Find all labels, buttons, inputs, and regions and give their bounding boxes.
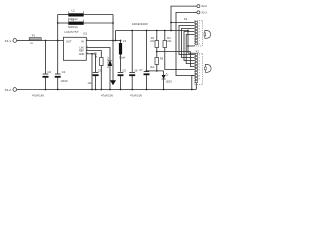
wire bead left vertical (57, 15, 59, 41)
svg-text:IC1: IC1 (83, 31, 88, 35)
ferrite bead L1 (68, 22, 83, 25)
wire bottom rail (17, 89, 197, 91)
wire R4 chain (164, 31, 166, 41)
svg-text:56uH: 56uH (119, 56, 125, 60)
svg-text:10k: 10k (150, 40, 155, 43)
wire C2 vertical (45, 41, 47, 74)
inductor L3 (119, 43, 122, 55)
wire X1-1 to fuse (17, 40, 30, 42)
svg-text:2: 2 (199, 58, 201, 60)
ferrite bead L2 (68, 13, 83, 16)
svg-text:GND: GND (79, 53, 85, 56)
wire bus1 K1 row2 to K2 row2 (179, 26, 195, 55)
wire rail riser (115, 31, 117, 41)
svg-text:47uF/16V: 47uF/16V (32, 94, 44, 98)
svg-text:IN: IN (81, 39, 84, 43)
wire L1 row (58, 22, 69, 24)
svg-text:1: 1 (199, 55, 201, 57)
wire fuse to IC (41, 40, 63, 42)
svg-text:4: 4 (199, 64, 201, 66)
fuse F1 (29, 38, 41, 41)
capacitor C3 (93, 71, 99, 73)
resistor R3 (155, 41, 159, 48)
svg-text:C7: C7 (139, 68, 143, 72)
svg-text:C2: C2 (48, 70, 52, 74)
wire IC REF pin (86, 51, 101, 58)
svg-text:47uF/10V: 47uF/10V (130, 94, 142, 98)
wire X2-2 net (171, 6, 197, 30)
svg-text:X1-2: X1-2 (5, 88, 12, 92)
capacitor C7 (144, 71, 150, 73)
svg-text:6: 6 (199, 70, 201, 72)
svg-text:2: 2 (199, 26, 201, 28)
wire bead right vertical down to ground rail (112, 15, 114, 81)
svg-text:OUT: OUT (66, 39, 72, 43)
resistor R1 (100, 58, 104, 66)
svg-text:X1-1: X1-1 (5, 39, 12, 43)
mini-DIN face icon K2 (205, 65, 211, 73)
svg-text:7: 7 (199, 73, 201, 75)
svg-text:L2: L2 (72, 9, 75, 13)
svg-text:C6: C6 (134, 69, 138, 73)
capacitor C2 electrolytic (43, 73, 49, 75)
svg-text:F1: F1 (32, 35, 36, 38)
connector X1-2 (13, 88, 17, 92)
svg-text:K1: K1 (184, 17, 188, 21)
svg-text:P6SMB: P6SMB (106, 57, 109, 69)
svg-text:6: 6 (199, 38, 201, 40)
wire X2-1 net (176, 12, 197, 75)
wire IC IN pin (86, 40, 120, 42)
LED1 (162, 75, 166, 79)
wire IC LIM pin (86, 48, 110, 61)
svg-text:8: 8 (199, 76, 201, 78)
resistor R5 (155, 58, 159, 65)
wire R3 to K2 bus (157, 52, 195, 67)
svg-text:C3: C3 (98, 69, 102, 73)
svg-text:L1: L1 (72, 18, 75, 22)
svg-text:1k: 1k (95, 56, 98, 59)
svg-text:2k2: 2k2 (150, 66, 155, 69)
wire R3 chain (156, 31, 158, 41)
svg-text:K2: K2 (196, 49, 200, 53)
svg-text:22k: 22k (167, 40, 172, 43)
svg-text:X2-1: X2-1 (201, 11, 207, 15)
resistor R4 (163, 41, 167, 48)
mini-DIN face icon K1 (205, 31, 211, 39)
connector X2-1 (197, 11, 200, 14)
svg-text:9: 9 (199, 79, 201, 81)
wire D1 bottom (109, 66, 111, 90)
wire ground to K2 row8 (192, 76, 195, 90)
wire L3 vertical (120, 41, 122, 44)
svg-text:7: 7 (199, 41, 201, 43)
wire LED node (147, 70, 164, 72)
svg-text:X2-2: X2-2 (201, 4, 207, 8)
wire C3 tap (95, 54, 97, 72)
wire C7 vertical (146, 31, 148, 72)
svg-text:LM2575T: LM2575T (65, 30, 80, 34)
node A junction dots main wire (45, 22, 193, 91)
svg-text:5: 5 (199, 35, 201, 37)
svg-text:C1: C1 (62, 70, 66, 74)
svg-text:REF: REF (79, 50, 84, 53)
wire top rail (116, 30, 189, 32)
svg-text:3: 3 (199, 29, 201, 31)
svg-text:5: 5 (199, 67, 201, 69)
svg-text:100nF: 100nF (61, 79, 69, 83)
connector X1-1 (13, 39, 17, 43)
svg-text:100nF/100V: 100nF/100V (132, 22, 148, 26)
wire ground to K2 row10 (195, 83, 197, 90)
wire L2 row (58, 14, 69, 16)
wire C1 vertical (57, 41, 59, 74)
capacitor C6 (129, 71, 135, 73)
diode D1 TVS (108, 61, 112, 66)
svg-text:4: 4 (199, 32, 201, 34)
svg-text:1A: 1A (30, 42, 33, 45)
svg-text:C5: C5 (123, 69, 127, 73)
ground chassis wedge (110, 80, 116, 85)
wire rail +5V distribution (187, 31, 189, 54)
capacitor C5 (118, 71, 124, 73)
svg-text:L3: L3 (123, 39, 127, 43)
wire R1 bottom (100, 66, 102, 90)
svg-text:1: 1 (199, 23, 201, 25)
svg-text:8: 8 (199, 44, 201, 46)
svg-text:LED1: LED1 (166, 81, 173, 84)
op-amp U1 regulator IC (63, 37, 86, 60)
svg-text:600R/1A: 600R/1A (68, 26, 78, 29)
svg-text:47uF/10V: 47uF/10V (101, 94, 113, 98)
svg-text:10u: 10u (88, 81, 93, 85)
capacitor C1 (55, 73, 61, 75)
wire bus2 K1 row3 to K2 row3 (182, 29, 195, 58)
svg-text:3: 3 (199, 61, 201, 63)
wire IC GND pin (86, 53, 95, 55)
svg-text:R5: R5 (160, 58, 164, 61)
wire bus4 K1 row5 to K2 row5 (186, 35, 194, 64)
wire bus3 K1 row4 to K2 row4 (184, 32, 195, 61)
connector X2-2 (197, 5, 200, 8)
wire C6 vertical (131, 31, 133, 73)
